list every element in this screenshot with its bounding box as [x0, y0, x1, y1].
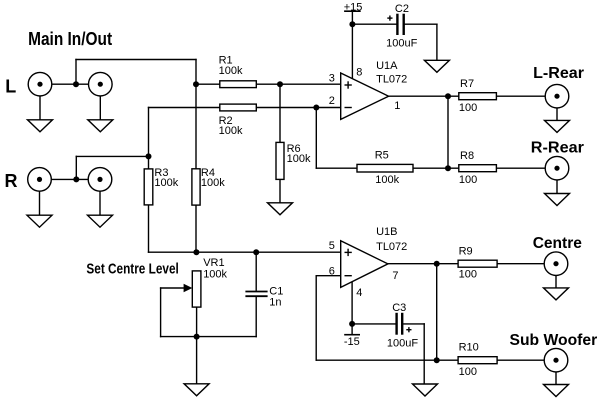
svg-text:6: 6: [329, 265, 335, 277]
svg-text:100uF: 100uF: [387, 337, 418, 349]
svg-text:L-Rear: L-Rear: [533, 65, 584, 82]
svg-text:-15: -15: [344, 336, 360, 348]
svg-text:R8: R8: [460, 150, 474, 162]
svg-text:8: 8: [356, 67, 362, 79]
svg-text:Sub Woofer: Sub Woofer: [510, 332, 598, 349]
svg-text:R-Rear: R-Rear: [531, 139, 584, 156]
svg-text:100k: 100k: [154, 177, 178, 189]
svg-text:100k: 100k: [219, 65, 243, 77]
svg-text:TL072: TL072: [376, 241, 407, 253]
svg-text:100: 100: [459, 268, 477, 280]
svg-text:R10: R10: [459, 342, 479, 354]
svg-text:100uF: 100uF: [386, 37, 417, 49]
svg-text:C2: C2: [395, 3, 409, 15]
svg-text:7: 7: [392, 270, 398, 282]
svg-text:R7: R7: [460, 78, 474, 90]
svg-text:2: 2: [329, 95, 335, 107]
svg-text:1n: 1n: [269, 297, 281, 309]
svg-text:R5: R5: [375, 149, 389, 161]
svg-text:100k: 100k: [375, 174, 399, 186]
svg-text:U1A: U1A: [376, 60, 398, 72]
svg-text:Centre: Centre: [533, 235, 582, 252]
svg-text:100k: 100k: [201, 177, 225, 189]
svg-text:R: R: [5, 171, 18, 191]
svg-text:1: 1: [394, 100, 400, 112]
svg-text:100: 100: [459, 366, 477, 378]
svg-text:4: 4: [356, 287, 362, 299]
svg-text:VR1: VR1: [203, 257, 224, 269]
svg-text:U1B: U1B: [376, 226, 397, 238]
svg-text:R9: R9: [459, 246, 473, 258]
svg-text:5: 5: [329, 240, 335, 252]
svg-text:Set Centre Level: Set Centre Level: [86, 260, 178, 277]
svg-text:100: 100: [459, 102, 477, 114]
svg-text:100k: 100k: [219, 125, 243, 137]
svg-text:100k: 100k: [203, 269, 227, 281]
svg-text:100k: 100k: [287, 153, 311, 165]
svg-text:C3: C3: [392, 302, 406, 314]
svg-text:100: 100: [459, 174, 477, 186]
svg-text:3: 3: [329, 72, 335, 84]
svg-text:+15: +15: [344, 1, 363, 13]
svg-text:TL072: TL072: [376, 74, 407, 86]
svg-text:L: L: [5, 77, 16, 97]
svg-text:Main In/Out: Main In/Out: [28, 29, 112, 49]
